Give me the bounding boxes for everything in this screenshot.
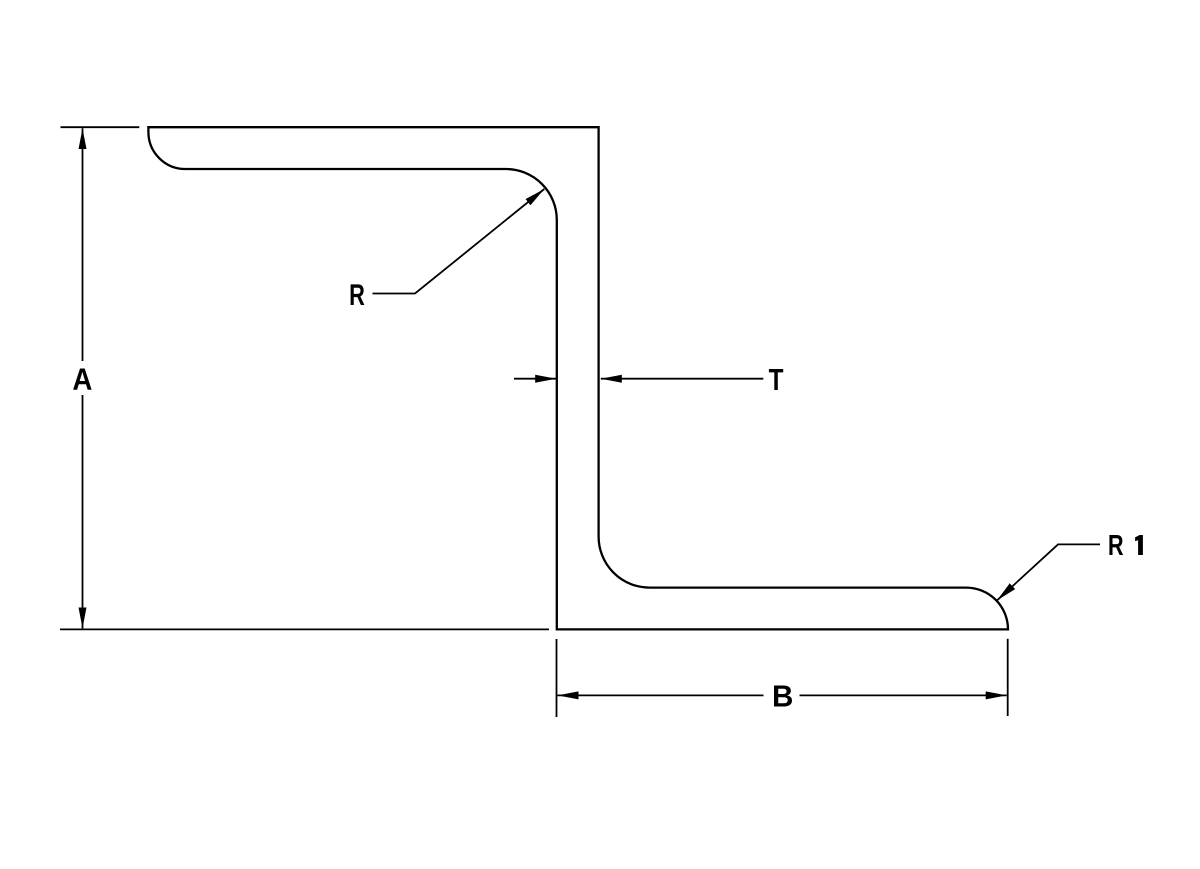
dimension B line right segment with right arrow: [800, 694, 1007, 696]
label T: [769, 369, 783, 390]
dimension A line upper segment with up arrow: [82, 128, 84, 361]
dimension A bottom extension line: [60, 628, 549, 630]
label R 1 - digit 1: [1135, 535, 1143, 555]
dimension B left extension line: [556, 639, 558, 717]
dimension A line lower segment with down arrow: [82, 395, 84, 628]
label R 1 - letter R: [1109, 535, 1123, 555]
leader for R 1 with arrowhead: [997, 544, 1100, 600]
Z-bar profile outline: [148, 127, 1008, 629]
dimension B right extension line: [1007, 639, 1009, 716]
leader for R with arrowhead: [373, 189, 545, 294]
label R: [351, 284, 365, 305]
dimension B line left segment with left arrow: [558, 694, 764, 696]
dimension A top extension line: [61, 126, 140, 128]
label A: [73, 369, 91, 390]
dimension T right arrow: [601, 378, 764, 380]
dimension T left arrow: [514, 378, 556, 380]
label B: [774, 686, 792, 707]
